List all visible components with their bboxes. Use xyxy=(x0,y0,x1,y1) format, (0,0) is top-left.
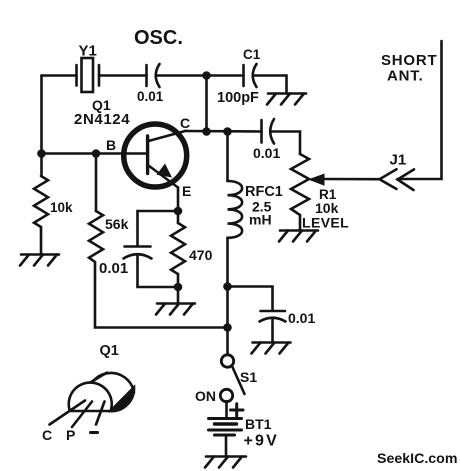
svg-text:10k: 10k xyxy=(50,200,73,215)
wire RFC1 bottom lead xyxy=(226,238,229,287)
svg-text:ON: ON xyxy=(195,388,216,404)
wire base node to 10k xyxy=(40,154,43,177)
svg-text:mH: mH xyxy=(249,212,272,228)
ground G3 (below 470) xyxy=(156,304,195,315)
capacitor 0.01 (row 1) xyxy=(147,64,160,87)
Q1 package drawing xyxy=(50,373,135,427)
svg-text:LEVEL: LEVEL xyxy=(302,215,349,231)
label + (battery polarity) xyxy=(231,404,244,416)
node A (top junction) xyxy=(202,71,211,80)
wire 470 to bottom node xyxy=(177,274,180,287)
svg-text:OSC.: OSC. xyxy=(134,27,183,49)
inductor RFC1 2.5 mH xyxy=(228,181,243,238)
wire R1 to ground xyxy=(299,215,302,231)
capacitor 0.01 (bottom right) xyxy=(260,311,286,322)
wire antenna vertical xyxy=(398,41,442,179)
svg-text:C: C xyxy=(42,427,52,443)
wire to bottom-right cap xyxy=(228,287,273,311)
svg-text:SeekIC.com: SeekIC.com xyxy=(377,451,457,467)
ground G1 (right of 100pF) xyxy=(267,94,306,105)
switch S1 xyxy=(220,355,244,402)
wire RFC node to rail node to switch xyxy=(226,287,229,356)
resistor 10k (base bias) xyxy=(34,176,48,227)
svg-text:Y1: Y1 xyxy=(79,43,97,60)
transistor Q1 2N4124 xyxy=(124,124,187,188)
svg-text:0.01: 0.01 xyxy=(137,89,164,104)
node RFC1 bottom junction xyxy=(223,282,232,291)
wire 470 node to ground G3 xyxy=(177,287,180,304)
node C1 junction (below node A) xyxy=(202,127,211,136)
ground G5 (below bottom-right cap) xyxy=(252,343,291,354)
node emitter junction xyxy=(174,207,183,216)
wire row2 cap to R1 top xyxy=(271,132,301,155)
svg-text:P: P xyxy=(66,427,75,443)
wire 56k to bottom rail xyxy=(95,262,228,328)
wire emitter node to 470 xyxy=(177,211,180,223)
label - lead xyxy=(91,431,98,434)
wire bypass cap bottom to 470 bottom node xyxy=(138,256,179,288)
wire crystal to C row1 cap xyxy=(99,74,147,77)
resistor 470 xyxy=(171,223,185,274)
potentiometer R1 10k xyxy=(291,154,309,215)
wire battery to ground G6 xyxy=(225,435,228,457)
svg-text:0.01: 0.01 xyxy=(99,260,128,277)
svg-text:+9V: +9V xyxy=(244,433,280,450)
wire node A to C1 xyxy=(207,74,244,77)
svg-text:2N4124: 2N4124 xyxy=(74,111,130,128)
node 470 bottom junction xyxy=(174,283,183,292)
capacitor C1 100pF xyxy=(244,64,257,87)
svg-text:Q1: Q1 xyxy=(100,343,119,359)
wire 56k node down xyxy=(95,154,98,212)
svg-text:B: B xyxy=(106,137,116,153)
wire cap to ground G5 xyxy=(271,318,274,343)
svg-text:SHORT: SHORT xyxy=(381,52,438,69)
svg-text:BT1: BT1 xyxy=(245,416,272,432)
svg-text:E: E xyxy=(182,183,191,199)
wire crystal row left segment xyxy=(42,74,77,77)
svg-text:470: 470 xyxy=(189,247,213,263)
svg-text:0.01: 0.01 xyxy=(253,145,280,161)
svg-text:0.01: 0.01 xyxy=(288,310,315,326)
battery BT1 xyxy=(209,419,242,436)
R1 wiper arrow xyxy=(308,174,380,186)
svg-text:J1: J1 xyxy=(390,152,407,169)
wire C1 to chassis ground corner xyxy=(253,76,287,94)
capacitor 0.01 (row 2) xyxy=(262,119,275,144)
crystal Y1 xyxy=(77,58,100,92)
ground G4 (below R1) xyxy=(279,231,318,242)
wire switch to battery xyxy=(225,401,228,419)
node RFC1 top junction xyxy=(223,127,232,136)
wire RFC1 top lead xyxy=(226,132,229,182)
node 56k top junction xyxy=(92,149,101,158)
svg-text:C: C xyxy=(180,115,190,131)
svg-text:S1: S1 xyxy=(240,369,257,385)
wire base row xyxy=(42,152,147,155)
wire left vertical from crystal row to base row xyxy=(40,76,43,154)
svg-text:100pF: 100pF xyxy=(217,90,259,106)
resistor 56k xyxy=(89,211,103,262)
node B-left junction xyxy=(37,149,46,158)
ground G2 (below 10k) xyxy=(20,255,59,266)
wire node A down to collector row xyxy=(205,76,208,132)
wire emitter vertical xyxy=(177,188,180,212)
jack J1 xyxy=(380,169,415,190)
node bottom rail junction xyxy=(223,323,232,332)
ground G6 (below battery) xyxy=(205,457,246,468)
wire emitter node to bypass cap branch xyxy=(138,211,179,246)
wire row1 cap to node A xyxy=(156,74,207,77)
wire 10k to ground xyxy=(40,227,43,255)
capacitor 0.01 (emitter bypass) xyxy=(124,247,152,259)
svg-text:56k: 56k xyxy=(105,216,129,232)
wire collector to nodes xyxy=(186,130,262,133)
svg-text:C1: C1 xyxy=(243,47,261,62)
svg-text:ANT.: ANT. xyxy=(387,68,424,85)
